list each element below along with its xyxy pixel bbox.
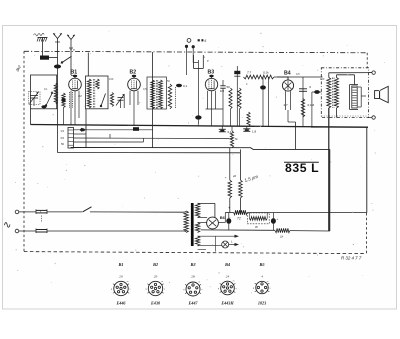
svg-text:0,1k: 0,1k: [263, 71, 269, 75]
svg-text:1,8: 1,8: [252, 130, 257, 134]
svg-text:0,1: 0,1: [228, 130, 233, 134]
svg-text:0,1M: 0,1M: [308, 103, 315, 107]
svg-text:∿: ∿: [3, 220, 11, 231]
svg-text:g: g: [218, 288, 219, 290]
svg-text:B3: B3: [208, 70, 215, 76]
svg-text:28: 28: [191, 275, 195, 279]
svg-text:B5: B5: [258, 262, 265, 267]
svg-text:29: 29: [154, 275, 158, 279]
svg-text:R 32 4 7 7: R 32 4 7 7: [341, 256, 362, 261]
svg-text:29: 29: [119, 275, 123, 279]
svg-text:6: 6: [205, 39, 207, 43]
svg-text:E447: E447: [187, 301, 198, 306]
svg-text:g: g: [253, 288, 254, 290]
svg-text:4,7: 4,7: [284, 103, 289, 107]
svg-text:1823: 1823: [258, 301, 266, 306]
svg-text:1M: 1M: [220, 89, 225, 93]
svg-text:E446: E446: [115, 301, 126, 306]
svg-text:0,5: 0,5: [296, 72, 300, 76]
svg-text:0,5: 0,5: [143, 87, 147, 91]
svg-text:B1: B1: [117, 262, 123, 267]
svg-text:B4: B4: [284, 71, 291, 77]
svg-text:B4: B4: [224, 262, 231, 267]
svg-text:2k: 2k: [232, 174, 237, 178]
svg-text:0,1: 0,1: [183, 84, 188, 88]
svg-text:B2: B2: [130, 70, 137, 76]
svg-text:T.7: T.7: [247, 71, 251, 75]
svg-text:E438: E438: [150, 301, 161, 306]
svg-text:+: +: [277, 217, 279, 221]
svg-text:B1: B1: [71, 70, 78, 76]
svg-text:g: g: [111, 289, 112, 291]
svg-text:G: G: [203, 55, 205, 59]
svg-text:2M: 2M: [78, 94, 82, 98]
svg-text:7k: 7k: [235, 137, 239, 141]
svg-text:1,5: 1,5: [60, 129, 64, 133]
svg-text:100: 100: [109, 77, 114, 81]
svg-text:835 L: 835 L: [285, 161, 319, 175]
svg-text:B2: B2: [152, 262, 159, 267]
svg-text:1k: 1k: [280, 235, 284, 239]
svg-text:T2: T2: [237, 217, 241, 221]
svg-text:0,1: 0,1: [44, 87, 48, 91]
svg-text:B3: B3: [189, 262, 196, 267]
svg-text:B6: B6: [220, 215, 226, 220]
svg-text:g: g: [146, 289, 147, 291]
svg-text:3,5: 3,5: [60, 136, 64, 140]
svg-text:P: P: [207, 59, 209, 63]
svg-text:50: 50: [227, 85, 231, 89]
svg-text:4: 4: [261, 275, 263, 279]
svg-text:24: 24: [226, 275, 230, 279]
svg-text:E443H: E443H: [220, 301, 234, 306]
svg-text:100: 100: [320, 77, 325, 81]
svg-text:g: g: [183, 289, 184, 291]
